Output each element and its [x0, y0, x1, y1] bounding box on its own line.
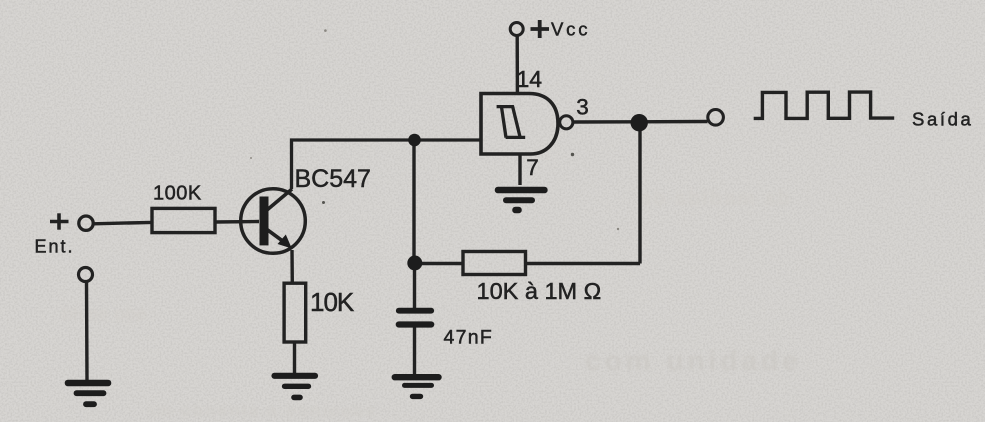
svg-text:Ent.: Ent.	[35, 237, 75, 257]
svg-text:47nF: 47nF	[444, 327, 494, 349]
svg-text:com unidade: com unidade	[585, 345, 802, 376]
svg-text:10K: 10K	[310, 287, 355, 317]
svg-text:7: 7	[526, 155, 539, 180]
svg-text:BC547: BC547	[295, 165, 371, 193]
svg-text:im obnenta a obnicoba: im obnenta a obnicoba	[150, 401, 377, 420]
svg-text:ab sbibam sb: ab sbibam sb	[640, 188, 792, 210]
svg-text:bli ne obe: bli ne obe	[62, 304, 146, 324]
svg-text:14: 14	[517, 66, 543, 92]
svg-text:10K à 1M Ω: 10K à 1M Ω	[477, 278, 602, 304]
svg-text:Vcc: Vcc	[551, 19, 590, 40]
svg-text:3: 3	[576, 95, 589, 120]
svg-text:100K: 100K	[153, 183, 202, 205]
svg-text:Saída: Saída	[912, 108, 973, 129]
